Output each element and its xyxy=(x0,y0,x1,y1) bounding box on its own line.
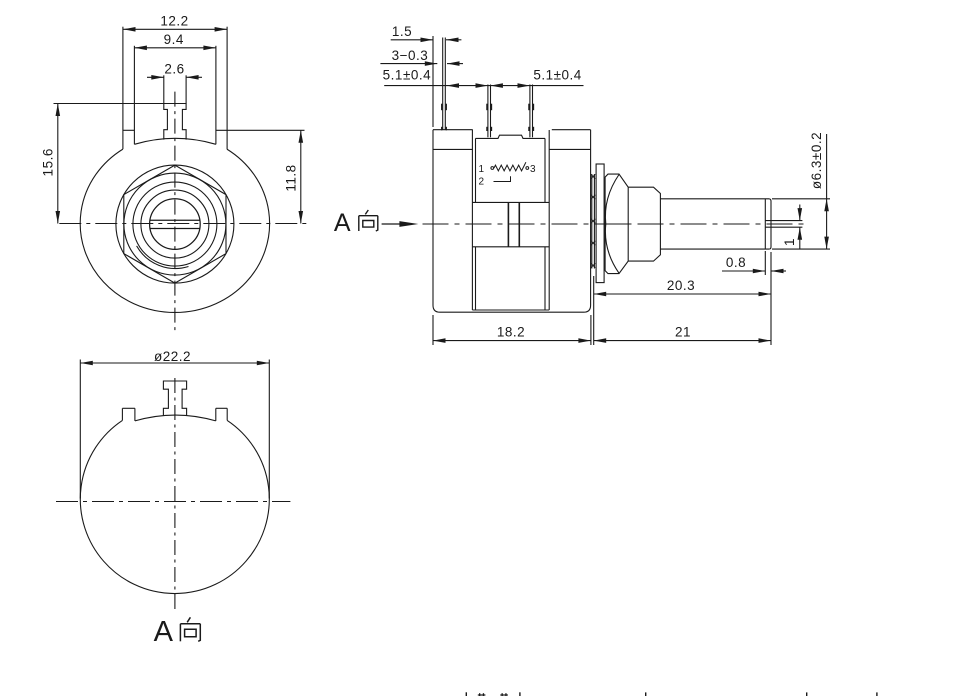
svg-text:5.1±0.4: 5.1±0.4 xyxy=(383,68,431,83)
rear view: anti-rotation T-tab xyxy=(163,381,186,416)
front view: spring washer arc fragment xyxy=(137,246,189,269)
side view: dimensions 5.1±0.4 xyxy=(384,85,583,87)
bottom edge: cut-off table text fragments xyxy=(466,692,467,696)
svg-text:20.3: 20.3 xyxy=(667,278,695,293)
rear view: dimension ø22.2 xyxy=(79,360,81,499)
side view: case internal partition lower xyxy=(472,246,549,248)
side view: lower chamber box xyxy=(475,247,477,310)
svg-text:3: 3 xyxy=(530,164,536,175)
side view: dimension 0.8 xyxy=(764,251,766,275)
side view: serrated lock washer xyxy=(591,174,593,268)
side view: case top with notch xyxy=(476,135,546,138)
side view: hex nut xyxy=(605,174,628,274)
side view: body outline xyxy=(433,130,591,313)
front view: anti-rotation T-tab xyxy=(164,104,186,140)
svg-text:3−0.3: 3−0.3 xyxy=(392,48,429,63)
svg-text:ø22.2: ø22.2 xyxy=(154,349,191,364)
svg-text:5.1±0.4: 5.1±0.4 xyxy=(533,68,581,83)
side view: terminal pin 2 (middle) xyxy=(487,85,489,138)
front view: dimension 9.4 xyxy=(134,47,216,49)
side view: dimension 1.5 xyxy=(432,36,434,127)
rear view: right tab xyxy=(215,408,217,421)
front view: 15.6 top extension line (ear/T-tab top) xyxy=(54,103,187,105)
front view: dimension 12.2 xyxy=(123,28,227,30)
side view: flat washer xyxy=(596,164,604,283)
side view: dimension 1 (slot width) xyxy=(799,205,801,221)
front view: hex nut xyxy=(124,165,226,283)
side view: dimension 3-0.3 xyxy=(380,63,437,65)
front view: vertical centerline xyxy=(174,92,176,334)
svg-text:1: 1 xyxy=(782,238,797,246)
side view: horizontal centerline xyxy=(423,223,807,225)
side view: shaft xyxy=(660,198,769,200)
side view: shaft slot xyxy=(765,220,802,222)
side view: dimension 20.3 xyxy=(593,276,595,345)
front view: horizontal centerline xyxy=(59,223,310,225)
svg-text:11.8: 11.8 xyxy=(284,164,299,191)
svg-text:ø6.3±0.2: ø6.3±0.2 xyxy=(809,132,824,189)
svg-text:A: A xyxy=(334,209,351,237)
svg-text:A: A xyxy=(154,616,174,648)
svg-text:12.2: 12.2 xyxy=(160,14,188,29)
side view: shaft slot chamfer line xyxy=(764,199,766,249)
side view: dimension 18.2 xyxy=(432,315,434,345)
front view: bushing circle xyxy=(124,173,226,275)
svg-text:18.2: 18.2 xyxy=(497,325,525,340)
svg-text:2: 2 xyxy=(478,177,484,188)
front view: inner ring circle xyxy=(133,182,217,266)
front view: dimension 15.6 xyxy=(57,104,59,224)
front view: dimension 2.6 xyxy=(163,75,165,103)
rear view: flat top arc between tabs xyxy=(135,415,216,421)
rear view: body outline circle xyxy=(80,420,269,593)
front view: left ear tab xyxy=(122,27,124,149)
side view: case bottom edge xyxy=(472,309,549,311)
side view: case outer walls xyxy=(471,130,473,310)
front view: body outline (elliptical can profile) xyxy=(80,149,269,312)
rear view: left tab xyxy=(121,408,123,420)
rear view: horizontal centerline xyxy=(56,501,290,503)
front view: dimension 11.8 xyxy=(300,130,302,223)
front view: washer ring circle xyxy=(141,190,209,258)
svg-text:21: 21 xyxy=(675,325,691,340)
side view: case internal partition upper xyxy=(472,201,549,203)
front view: shaft circle xyxy=(150,199,201,250)
side view: wiper symbol xyxy=(494,176,511,181)
side view: center support verticals xyxy=(507,202,509,246)
svg-text:0.8: 0.8 xyxy=(726,255,746,270)
side view: case upper chamber box xyxy=(475,138,477,202)
svg-text:2.6: 2.6 xyxy=(164,62,184,77)
front view: right ear tab xyxy=(215,46,217,145)
svg-text:1.5: 1.5 xyxy=(392,24,412,39)
svg-text:9.4: 9.4 xyxy=(164,32,184,47)
front view: hex nut flange circle xyxy=(116,165,234,283)
rear view: vertical centerline xyxy=(174,378,176,612)
svg-text:15.6: 15.6 xyxy=(41,148,56,176)
svg-text:1: 1 xyxy=(478,164,484,175)
front view: shaft slot lines xyxy=(150,219,200,221)
side view: terminal pin 1 (left) xyxy=(442,38,444,131)
side view: dimension 21 xyxy=(594,340,771,342)
front view: flat top arc between ears xyxy=(134,138,216,144)
side view: threaded bushing xyxy=(628,187,660,261)
side view: terminal pin 3 (right) xyxy=(529,85,531,138)
side view: dimension ø6.3±0.2 xyxy=(772,198,830,200)
